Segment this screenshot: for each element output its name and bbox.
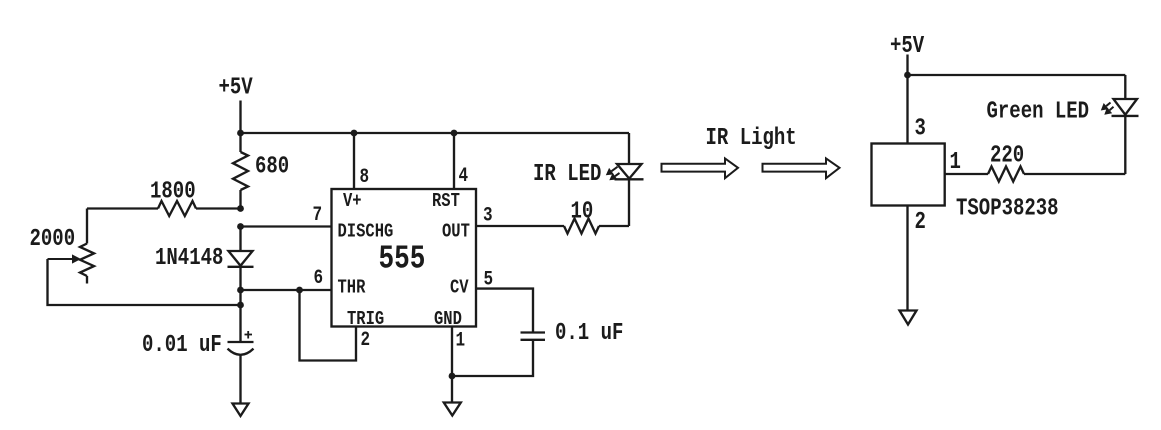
wire +5V down to rail: [239, 101, 241, 134]
LED Green emission arrows: [1106, 103, 1110, 107]
node junction GND net: [449, 373, 456, 380]
svg-text:2: 2: [915, 208, 926, 236]
wire rail down to capacitor 0.01uF: [239, 290, 241, 342]
resistor 1800 (horizontal): [87, 207, 158, 209]
node junction TRIG branch on THR wire: [296, 287, 303, 294]
svg-text:10: 10: [571, 197, 594, 225]
wire 1800 down to potentiometer: [86, 209, 88, 244]
svg-text:555: 555: [379, 240, 426, 278]
wire rail down to Green LED: [1124, 75, 1126, 99]
ground symbol (centre): [444, 403, 461, 416]
svg-text:GND: GND: [434, 308, 462, 330]
potentiometer wiper arrow: [48, 258, 75, 260]
svg-text:3: 3: [483, 204, 493, 227]
wire +5V down to node (right): [906, 55, 908, 76]
wire to pin 7 DISCHG: [241, 225, 332, 227]
wire capacitor 0.1uF to ground net: [452, 340, 533, 376]
svg-text:TSOP38238: TSOP38238: [956, 194, 1059, 222]
capacitor 0.01 uF polarized top plate: [228, 341, 254, 343]
wire pin 1 TSOP to resistor 220: [945, 173, 988, 175]
svg-text:8: 8: [360, 165, 370, 188]
capacitor 0.01 uF bottom curved plate: [228, 349, 254, 355]
svg-text:Green LED: Green LED: [987, 97, 1090, 125]
ground symbol (right): [900, 311, 917, 325]
svg-text:1: 1: [950, 148, 961, 176]
svg-text:1: 1: [456, 329, 466, 352]
wire resistor 10 to IR LED cathode: [599, 225, 629, 227]
wire pin 2 TSOP to ground: [906, 206, 908, 311]
node junction pin 4 on +5V rail: [451, 130, 458, 137]
wire TRIG branch to pin 2: [300, 290, 357, 361]
node junction DISCHG branch: [237, 223, 244, 230]
svg-text:+5V: +5V: [219, 73, 254, 101]
svg-text:2000: 2000: [30, 225, 76, 253]
svg-text:1N4148: 1N4148: [155, 244, 223, 272]
wire +5V right rail: [908, 74, 1126, 76]
svg-text:CV: CV: [450, 277, 469, 299]
svg-text:0.1 uF: 0.1 uF: [555, 319, 623, 347]
node junction +5V rail / R-680: [237, 130, 244, 137]
wire GND node to ground symbol: [451, 376, 453, 403]
svg-text:RST: RST: [432, 190, 460, 212]
wire OUT pin 3 to resistor 10: [476, 225, 564, 227]
wire pin 8 stub: [353, 133, 355, 189]
wire top +5V rail: [241, 132, 630, 134]
IC TSOP38238 body: [872, 144, 945, 206]
wire to pin 6 THR: [241, 289, 332, 291]
svg-text:IR Light: IR Light: [706, 124, 797, 152]
svg-text:220: 220: [990, 141, 1024, 169]
node junction R680 / R1800: [237, 205, 244, 212]
wire pin 4 stub: [453, 133, 455, 189]
svg-text:5: 5: [484, 268, 494, 291]
resistor 10 (horizontal): [564, 219, 599, 234]
LED Green body: [1114, 99, 1138, 115]
LED IR body: [628, 133, 630, 164]
wire pin 3 TSOP to +5V: [906, 75, 908, 144]
svg-text:3: 3: [915, 114, 926, 142]
capacitor 0.01 uF plus mark: [245, 334, 253, 336]
capacitor 0.1 uF plates: [521, 331, 546, 333]
svg-text:0.01 uF: 0.01 uF: [142, 331, 222, 359]
resistor 220 (horizontal): [988, 167, 1024, 182]
ground symbol (left): [233, 404, 249, 417]
svg-text:TRIG: TRIG: [347, 308, 384, 330]
svg-text:6: 6: [314, 266, 324, 289]
node junction THR branch: [237, 287, 244, 294]
svg-text:THR: THR: [338, 277, 366, 299]
node junction pin 8 on +5V rail: [351, 130, 358, 137]
wire rail between DISCHG node and diode: [239, 227, 241, 252]
svg-text:2: 2: [361, 328, 371, 351]
arrow IR light right: [763, 158, 840, 178]
wire resistor 220 to Green LED cathode: [1024, 173, 1125, 175]
svg-text:4: 4: [459, 164, 469, 187]
svg-text:7: 7: [313, 203, 323, 226]
wire CV pin 5 to capacitor 0.1uF: [476, 289, 533, 333]
potentiometer 2000 body: [80, 244, 94, 277]
wire wiper return to rail: [48, 259, 241, 305]
svg-text:OUT: OUT: [442, 221, 470, 243]
svg-text:V+: V+: [343, 190, 362, 212]
svg-text:IR LED: IR LED: [533, 160, 601, 188]
diode 1N4148: [229, 251, 253, 266]
arrow IR light left: [662, 158, 739, 178]
LED IR emission arrows: [611, 167, 617, 171]
node junction +5V right rail: [904, 72, 911, 79]
op IC U1 555 body: [332, 189, 477, 327]
wire GND pin 1 stub: [451, 327, 453, 377]
node junction pot return / rail: [237, 302, 244, 309]
svg-text:1800: 1800: [150, 177, 196, 205]
svg-text:680: 680: [255, 152, 289, 180]
resistor 680 (vertical): [239, 133, 241, 152]
wire capacitor to ground: [239, 354, 241, 404]
